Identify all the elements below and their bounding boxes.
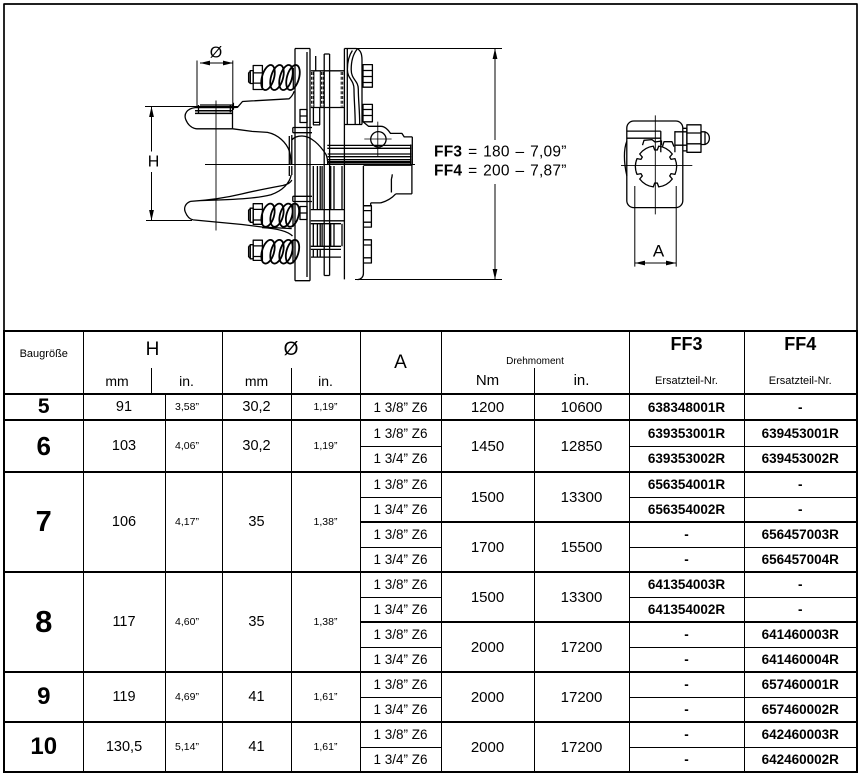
technical drawing area [0,0,865,334]
spring S2 end washer [292,204,294,228]
svg-text:Ø: Ø [210,45,222,62]
bolt M2 collar [250,208,253,222]
hub barrel lower [358,166,364,280]
hub cross hole [371,132,386,147]
web sweep between lower springs [262,228,293,236]
bolt M1 collar [250,71,253,84]
size 7 [4,472,857,497]
size 8 [4,572,857,597]
side view yoke ear lines / A extension [635,186,676,267]
bolt M2 hex head [253,204,262,225]
dim overall diameter (right) [345,49,502,280]
upper yoke arm [185,105,233,129]
size 10 [4,722,857,747]
side view clamp screw shaft [675,128,687,151]
side view clamp teeth [643,140,675,147]
friction disc [324,54,329,276]
flange bolt lower [363,104,372,121]
plate claw band upper [293,128,312,133]
svg-text:FF4 = 200 – 7,87”: FF4 = 200 – 7,87” [434,163,567,180]
size 5 [4,394,857,420]
svg-text:H: H [148,154,160,171]
yoke web upper [199,91,295,164]
spring S1 end washer [292,68,294,89]
dim Ø arrows [197,61,233,111]
bolt M3 collar [250,245,253,259]
side view clamp bolt tip [701,132,709,145]
dim H line [145,107,238,221]
pressure plate [295,49,310,281]
size 6 [4,420,857,446]
side view spline bore [635,146,676,187]
side view clamp slot [627,131,675,152]
clamp bolt section upper [364,206,372,227]
specification table [3,330,858,773]
housing outline lower right [363,165,412,206]
svg-text:FF3 = 180 – 7,09”: FF3 = 180 – 7,09” [434,144,567,161]
centerline yoke bolt axis [215,101,217,231]
bolt M3 hex head [253,240,262,260]
side view centerlines [621,115,692,214]
spring S3 end washer [292,240,294,264]
side view body [627,121,683,208]
spring seat tab upper [300,110,307,123]
side view body left bump [624,141,626,176]
friction lining upper hatch [312,72,343,107]
bolt M2 tip [249,208,251,222]
centerline main [205,164,415,166]
lower disc pack horizontals [311,210,345,258]
spring S3 coils [259,238,302,265]
border frame [4,4,857,331]
bolt M3 tip [249,245,251,259]
clamp bolt section lower [364,240,372,263]
dim A [635,261,676,266]
lower disc pack verticals [313,166,342,257]
plate claw band lower [293,196,312,201]
bolt M1 tip [249,71,251,84]
spring S2 coils [259,202,302,228]
friction lining upper boundaries [311,56,344,108]
flange bolt upper [363,65,372,88]
hub flange bracket [344,49,362,280]
hub block top [363,122,412,165]
spring S1 coils [259,63,303,91]
size 9 [4,672,857,697]
shaft spline lines [289,135,411,176]
hub spline step upper [313,107,320,125]
svg-text:A: A [653,242,665,261]
side view clamp bolt head [687,125,701,153]
bolt M1 hex head [253,66,262,90]
lower yoke arm [185,175,292,229]
spring seat tab lower [300,207,307,220]
